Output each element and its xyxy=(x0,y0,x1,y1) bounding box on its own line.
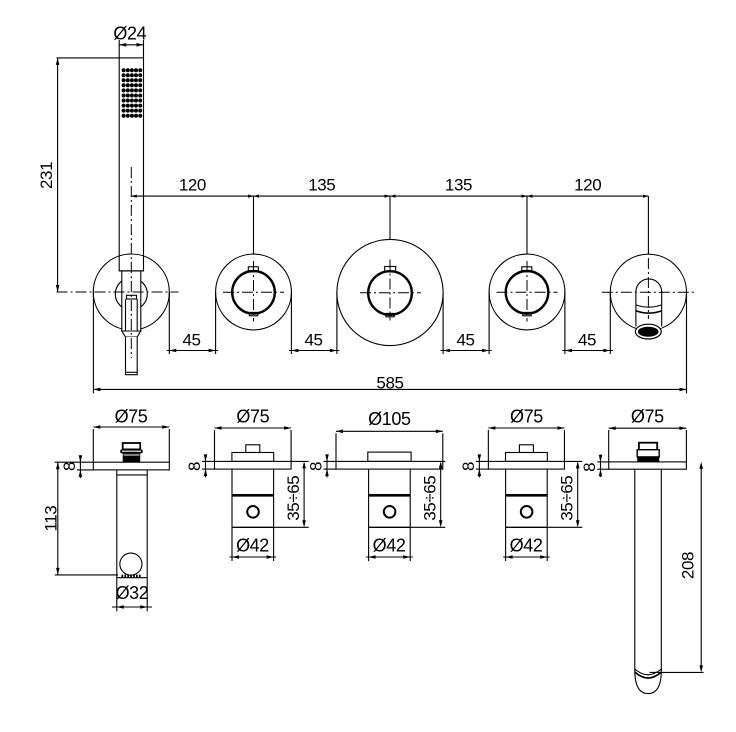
svg-text:8: 8 xyxy=(459,462,478,471)
valve handle nub bottom xyxy=(249,312,257,315)
wall plate side xyxy=(488,461,564,469)
body divider thick line xyxy=(506,494,548,497)
wall plate circle 3 (thermostat D105) xyxy=(337,239,443,345)
hand shower spray face dots xyxy=(122,68,143,118)
valve body sleeve xyxy=(231,469,233,527)
centerline circle 3 vertical xyxy=(389,260,391,321)
svg-text:Ø42: Ø42 xyxy=(373,535,406,555)
valve body sleeve xyxy=(505,469,507,527)
wall plate side 5 xyxy=(609,462,687,469)
svg-text:Ø75: Ø75 xyxy=(236,406,269,426)
svg-text:585: 585 xyxy=(376,374,403,393)
spout tube side xyxy=(634,469,636,672)
dimension 35-65 xyxy=(547,461,582,527)
holder clamp detail xyxy=(127,295,137,299)
svg-text:45: 45 xyxy=(304,330,322,349)
wall plate circle 1 (hand shower holder) xyxy=(93,254,169,330)
valve handle tab top xyxy=(248,267,258,272)
side view 4 (valve): dimension &#216;75 xyxy=(488,406,564,461)
handle screw circle xyxy=(247,506,259,518)
side view 3 (thermostat): dimension &#216;105 xyxy=(336,409,443,462)
spout bottom cap xyxy=(635,672,662,694)
dimension D42 xyxy=(230,527,277,561)
valve body sleeve xyxy=(368,469,370,527)
chain arrows xyxy=(131,195,648,198)
extension line circle 5 xyxy=(647,196,649,254)
side view 5: spout, dimension D75 xyxy=(609,406,687,462)
svg-text:Ø42: Ø42 xyxy=(510,535,543,555)
valve handle tab top xyxy=(522,267,532,272)
centerline circle 5 vertical xyxy=(647,258,649,319)
svg-text:Ø32: Ø32 xyxy=(116,583,149,603)
dimension line 45 xyxy=(289,350,340,352)
extension line circle 3 xyxy=(389,196,391,240)
svg-text:120: 120 xyxy=(179,175,206,194)
hose connector tube xyxy=(126,337,138,375)
dimension D42 xyxy=(503,527,550,561)
thermostat tab top xyxy=(385,267,396,272)
svg-text:Ø105: Ø105 xyxy=(368,409,411,429)
spout aerator arcs xyxy=(635,669,662,675)
dimension 35-65 xyxy=(410,461,445,527)
dimension D24 hand shower xyxy=(113,23,146,58)
hose inner lines xyxy=(125,299,127,331)
svg-text:45: 45 xyxy=(578,330,596,349)
svg-text:Ø75: Ø75 xyxy=(510,406,543,426)
wall plate circle 2 (valve) xyxy=(216,254,292,330)
dimension 8 view 1 xyxy=(60,455,93,478)
handle bottom edge xyxy=(369,526,411,528)
extension lines 45 gap xyxy=(442,293,444,355)
svg-text:45: 45 xyxy=(182,330,200,349)
wall plate circle 5 (spout) xyxy=(610,254,686,330)
handle bottom edge xyxy=(506,526,548,528)
handle screw circle xyxy=(384,506,396,518)
extension lines 45 gap xyxy=(168,292,170,354)
dimension line 45 xyxy=(441,350,492,352)
knob base xyxy=(506,453,548,462)
dimension line 45 xyxy=(167,350,218,352)
extension lines 45 gap xyxy=(564,292,566,354)
svg-text:Ø42: Ø42 xyxy=(236,535,269,555)
svg-text:231: 231 xyxy=(37,162,56,189)
spray teeth xyxy=(122,575,141,578)
svg-text:113: 113 xyxy=(41,506,60,532)
extension line circle 4 xyxy=(526,196,528,254)
svg-text:Ø75: Ø75 xyxy=(115,406,148,426)
dimension 231 vertical xyxy=(37,58,119,292)
extension line circle 2 xyxy=(253,196,255,254)
centerline vertical xyxy=(526,261,528,322)
valve handle circle xyxy=(506,271,549,314)
centerline circle 1 vertical xyxy=(130,167,132,358)
handle screw circle xyxy=(521,506,533,518)
spout connector cap xyxy=(639,443,657,451)
centerline horizontal xyxy=(497,291,558,293)
svg-text:120: 120 xyxy=(574,175,601,194)
svg-text:35÷65: 35÷65 xyxy=(558,476,577,521)
thermostat handle circle xyxy=(368,271,412,315)
body divider thick line xyxy=(232,494,274,497)
dimension D42 xyxy=(366,527,413,561)
holder hook circle xyxy=(120,553,142,575)
svg-text:8: 8 xyxy=(185,462,204,471)
dimension 35-65 xyxy=(274,461,309,527)
holder connector cap xyxy=(123,443,141,449)
holder arm tube xyxy=(116,470,118,578)
dimension 8 xyxy=(307,454,337,477)
centerline circle 3 horizontal xyxy=(360,292,421,294)
side view 1: holder, dimension D75 xyxy=(93,406,169,462)
svg-text:35÷65: 35÷65 xyxy=(284,476,303,521)
spout tube arch xyxy=(636,279,662,328)
centerline circle 1 horizontal xyxy=(57,291,179,293)
svg-text:8: 8 xyxy=(307,462,326,471)
svg-text:35÷65: 35÷65 xyxy=(421,476,440,521)
handle bottom edge xyxy=(119,270,143,272)
knob base xyxy=(368,452,411,461)
dimension 8 xyxy=(459,454,489,477)
wall plate side xyxy=(215,461,292,469)
valve handle nub bottom xyxy=(523,312,531,315)
holder ring xyxy=(115,278,147,310)
centerline horizontal xyxy=(223,291,284,293)
svg-text:135: 135 xyxy=(308,175,335,194)
wall plate side 1 xyxy=(93,462,169,470)
holder connector flange xyxy=(120,449,143,453)
spout connector black band xyxy=(637,457,659,462)
hose taper xyxy=(122,331,141,337)
spout connector mid xyxy=(637,450,659,457)
hand shower handle xyxy=(119,58,143,271)
spout outlet inner black ellipse xyxy=(638,327,659,337)
svg-text:8: 8 xyxy=(580,463,599,472)
holder connector black band xyxy=(123,453,141,462)
dimension 113 xyxy=(41,462,118,575)
dimension chain line 120-135-135-120 xyxy=(131,195,648,197)
svg-text:Ø24: Ø24 xyxy=(113,23,146,43)
spout outlet outer ellipse xyxy=(635,324,661,339)
centerline circle 5 horizontal xyxy=(602,291,696,293)
svg-text:45: 45 xyxy=(456,330,474,349)
handle bottom edge xyxy=(232,526,274,528)
extension lines 45 gap xyxy=(290,292,292,354)
hand shower lower tube through holder xyxy=(122,271,141,331)
svg-text:208: 208 xyxy=(679,552,698,579)
wall plate side xyxy=(336,461,443,469)
side view 2 (valve): dimension &#216;75 xyxy=(215,406,292,461)
dimension 8 xyxy=(185,454,215,477)
knob stem xyxy=(519,445,533,453)
body divider thick line xyxy=(369,494,411,497)
svg-text:8: 8 xyxy=(60,462,79,471)
knob base xyxy=(232,453,274,462)
wall plate circle 4 (valve) xyxy=(489,254,565,330)
svg-text:Ø75: Ø75 xyxy=(631,406,664,426)
dimension 208 xyxy=(650,462,704,673)
centerline vertical xyxy=(253,261,255,322)
svg-text:135: 135 xyxy=(445,175,472,194)
spout ring lines xyxy=(636,305,662,307)
dimension 8 view 5 xyxy=(580,455,609,478)
valve handle circle xyxy=(232,271,275,314)
dimension line 45 xyxy=(562,350,612,352)
knob stem xyxy=(246,445,260,453)
dimension D32 xyxy=(112,578,152,612)
dimension 585 overall xyxy=(93,292,686,393)
thermostat nub bottom xyxy=(386,313,394,316)
